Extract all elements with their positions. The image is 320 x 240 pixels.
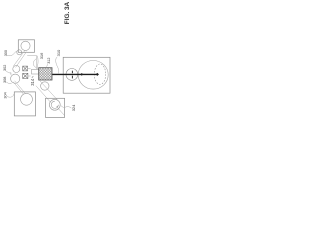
box 324 (rewind)	[46, 98, 65, 117]
roll in box 304	[21, 93, 33, 105]
svg-text:312: 312	[47, 57, 51, 63]
tick mark below	[71, 76, 73, 79]
crossed-box roller 2	[23, 73, 28, 78]
leader for 312	[47, 64, 48, 67]
guide arc at dryer entry	[39, 68, 43, 70]
wire web to rewind	[39, 80, 57, 100]
leader for 310	[56, 57, 59, 74]
svg-text:FIG. 3A: FIG. 3A	[64, 1, 71, 24]
svg-text:302: 302	[3, 65, 7, 71]
leader for 300	[7, 51, 17, 56]
leader for 302	[6, 71, 11, 73]
wire web lower segment 2	[13, 82, 24, 95]
leader for 314	[32, 76, 34, 78]
wavy leader for 324	[61, 106, 71, 108]
beam thick line	[52, 73, 96, 75]
spiral inner curl	[51, 101, 58, 108]
small roller at box 300 corner	[17, 50, 22, 55]
svg-text:324: 324	[71, 104, 76, 111]
svg-text:304: 304	[4, 92, 8, 98]
small tab box	[32, 69, 39, 74]
end diamond	[96, 73, 99, 76]
tick mark above	[71, 71, 73, 74]
leader for 304	[7, 94, 14, 98]
dryer box 312 (hatched)	[39, 68, 52, 80]
leader for 308	[6, 82, 11, 84]
wire web belt upper segment	[13, 50, 25, 66]
dashed ellipse	[94, 64, 105, 84]
big mirror circle	[78, 61, 108, 90]
svg-text:316: 316	[39, 52, 44, 59]
svg-text:314: 314	[30, 78, 35, 86]
wire web to rewind 2	[36, 86, 51, 103]
mid arrowhead	[81, 73, 84, 76]
crossed-box roller 1	[23, 66, 28, 71]
box 304 (unwind)	[14, 92, 35, 116]
scanner box	[63, 57, 110, 93]
wire from crossed-box 1	[28, 68, 31, 70]
lens circle	[66, 69, 78, 81]
wire chute between station and dryer	[27, 55, 38, 69]
roller 306	[11, 74, 20, 83]
wire web lower segment	[15, 81, 26, 94]
roller in box 300	[21, 41, 30, 50]
guide roller 318	[41, 82, 49, 90]
wire web between rollers	[10, 72, 12, 75]
svg-text:310: 310	[56, 49, 61, 56]
wire web belt upper segment 2	[16, 52, 27, 68]
wire from crossed-box 2	[28, 75, 31, 77]
roller 302	[13, 66, 20, 73]
wound roll spiral	[49, 99, 60, 110]
box 300 (print station)	[18, 40, 34, 53]
wire web around wound roll	[57, 107, 64, 115]
